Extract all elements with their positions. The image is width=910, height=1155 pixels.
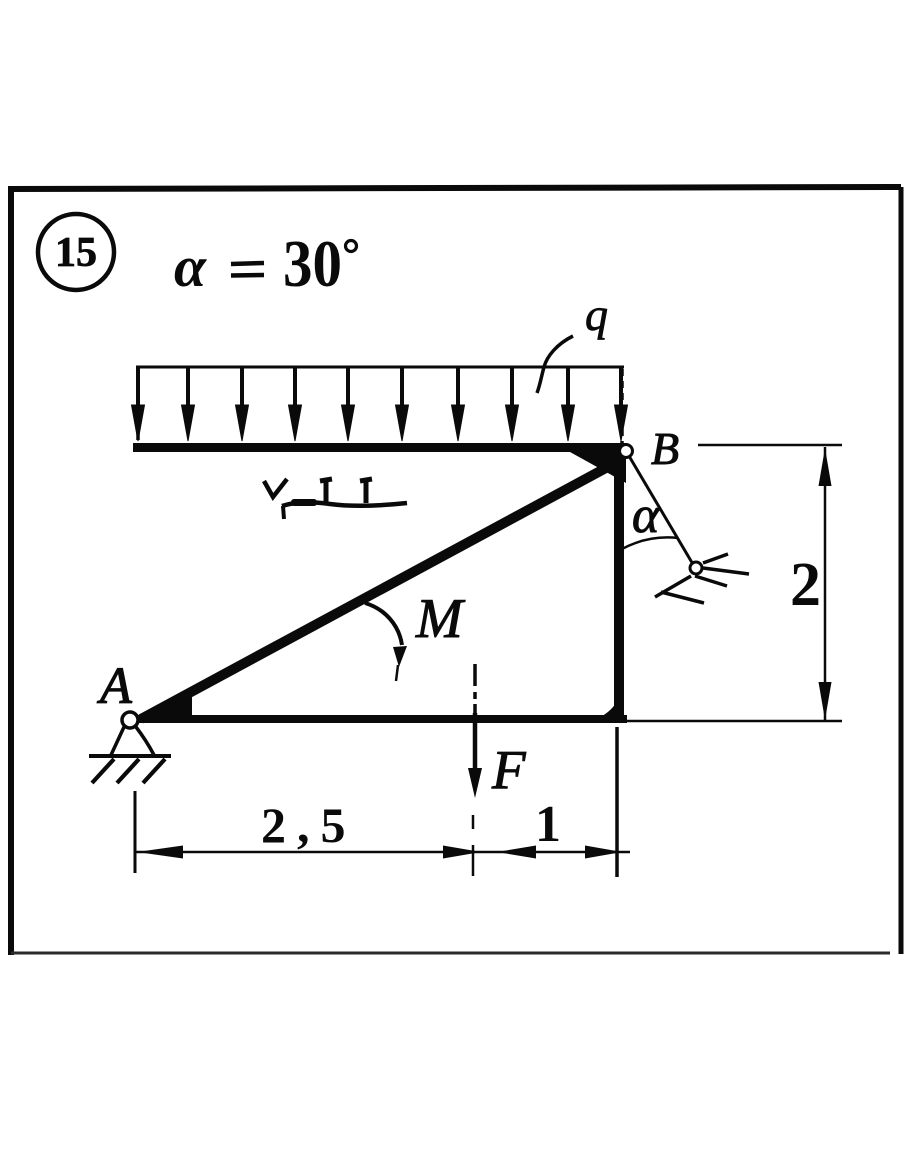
gusset at A [140,696,192,722]
artifact tick 2 [360,479,372,503]
svg-text:M: M [415,588,466,650]
svg-text:2: 2 [790,551,821,619]
frame bottom border [11,952,890,955]
pin A circle [122,712,138,728]
q leader line [537,336,573,393]
svg-text:q: q [585,289,608,340]
svg-text:F: F [491,739,527,800]
dim arrow up [819,448,832,486]
dim arrow right [585,846,622,859]
extension line right bottom [615,727,619,877]
svg-text:1: 1 [535,796,561,853]
moment arc [365,603,402,645]
frame top border [8,187,901,189]
extension line from B [698,444,842,447]
artifact scribble underline [282,502,407,506]
F centerline below [472,815,475,876]
bottom dimension line [136,851,630,854]
equals sign [231,263,264,276]
svg-text:B: B [651,423,679,474]
load arrows [132,367,628,441]
link rod at B [629,456,694,566]
force F dash-dot upper [473,664,477,713]
support A triangle legs [111,727,124,755]
frame right border [899,187,904,954]
degree mark [346,241,357,252]
dim arrow down [819,682,832,720]
force F shaft [473,713,478,775]
ground line at A [89,754,171,758]
dim arrow left [137,846,183,859]
top beam [133,443,627,452]
bottom beam [133,715,627,723]
frame left border [8,188,14,955]
alpha angle arc [622,537,678,549]
ground hatching at A [92,759,165,783]
distributed load top line [136,366,624,369]
gusset at top joint [570,452,626,483]
artifact scribble V [264,479,287,497]
extension line at A [134,791,137,873]
svg-text:α: α [174,234,207,299]
svg-text:15: 15 [55,230,97,276]
artifact scribble tail [283,506,284,519]
diagonal member [141,462,617,719]
force F arrowhead [468,768,482,798]
load right edge dashed [620,369,624,444]
load left edge [136,367,140,440]
scribble blob [291,499,317,506]
problem number circle [38,214,114,290]
dim arrow mid left [497,846,536,859]
vertical member [614,452,624,722]
svg-text:2,5: 2,5 [261,797,357,853]
svg-text:α: α [632,487,661,544]
link support pin [690,562,702,574]
link support hatching [655,554,749,603]
moment arrowhead [393,646,407,667]
svg-text:A: A [97,658,132,715]
gusset at bottom joint [588,686,624,722]
moment arrow tail [396,665,398,681]
dim arrow mid right [443,846,481,859]
pin B circle [620,445,633,458]
svg-text:30: 30 [283,227,342,301]
bottom extension line right [627,720,842,723]
artifact tick 1 [320,479,332,503]
right dimension line [824,447,827,720]
